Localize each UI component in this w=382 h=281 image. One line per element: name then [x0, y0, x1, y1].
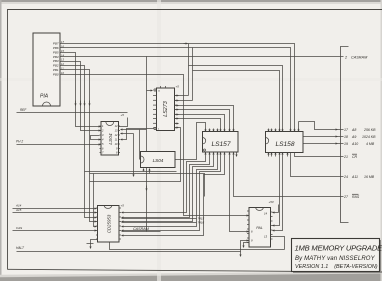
- pin arrow LS157 top: [224, 129, 226, 132]
- svg-text:CR: CR: [352, 155, 358, 159]
- svg-text:LS04: LS04: [108, 133, 114, 145]
- wire LS157 to CD25953: [122, 156, 206, 213]
- wire CD bottom long run: [110, 243, 285, 250]
- wire LS273 to LS157: [179, 115, 225, 132]
- svg-text:21: 21: [343, 155, 348, 159]
- svg-text:1024 KB: 1024 KB: [362, 135, 376, 139]
- wire PB1 to CD25953 pin4: [61, 70, 97, 222]
- pin arrow LS157 bottom: [224, 153, 226, 156]
- svg-text:PB5: PB5: [53, 50, 59, 54]
- pin arrow LS157 bottom: [229, 153, 231, 156]
- wire LS273 q2: [179, 100, 193, 102]
- ground arrow near gate: [133, 134, 135, 177]
- pin arrow LS158 top: [271, 129, 273, 132]
- pin arrow LS158 bottom: [271, 153, 273, 157]
- wire arrow: [89, 101, 91, 106]
- wire LS158 to A10 pin19: [304, 143, 338, 145]
- svg-text:PIA: PIA: [40, 94, 49, 100]
- svg-text:A10: A10: [351, 142, 358, 146]
- wire LS273 gnd circle to LS04 pin11: [121, 129, 154, 140]
- svg-text:CASRAM: CASRAM: [133, 227, 150, 231]
- wire LS158 top loop: [298, 122, 300, 132]
- svg-text:A8: A8: [351, 128, 356, 132]
- ground arrow PAL: [244, 243, 250, 248]
- wire LS158 to A8 pin17: [299, 122, 338, 130]
- pin arrow LS157 bottom: [217, 153, 219, 156]
- wire PB5 to LS04 pin1: [61, 53, 101, 127]
- svg-text:CAS: CAS: [16, 226, 22, 230]
- wire PB0 to PAL: [61, 75, 249, 216]
- pin arrow LS158 top: [294, 129, 296, 132]
- svg-text:16 MB: 16 MB: [364, 175, 375, 179]
- svg-text:13: 13: [264, 235, 268, 239]
- wire LS158 to PAL: [273, 157, 280, 226]
- wire HALT to PAL pin9: [17, 241, 249, 252]
- wire PAL +5V riser: [278, 205, 280, 213]
- ground arrow HALT: [240, 252, 242, 257]
- CD25953 chip: [96, 204, 124, 243]
- pin arrow LS158 bottom: [275, 153, 277, 157]
- wire 7416: [122, 222, 197, 224]
- wire A15: [13, 212, 97, 214]
- pin arrow LS273 out: [175, 123, 179, 125]
- pin arrow LS157 top: [220, 129, 222, 132]
- pin arrow LS157 bottom: [213, 153, 215, 156]
- svg-text:PB2: PB2: [53, 64, 59, 68]
- wire LS157 to CD25953: [122, 156, 225, 236]
- svg-text:PAL: PAL: [256, 226, 263, 230]
- pin arrow LS157 bottom: [220, 153, 222, 156]
- wire CASRAM to connector pin 2: [147, 56, 338, 58]
- svg-text:By MATHY van NISSELROY: By MATHY van NISSELROY: [295, 256, 376, 262]
- wire LS273 q8 bottom run: [90, 128, 181, 182]
- pin arrow LS158 top: [282, 129, 284, 132]
- svg-text:LS158: LS158: [275, 141, 294, 148]
- svg-text:A9: A9: [351, 135, 356, 139]
- wire LS157 to CD25953: [122, 156, 214, 222]
- wire CAS: [13, 230, 97, 232]
- wire to LS158: [189, 66, 283, 132]
- svg-text:PB7: PB7: [53, 42, 59, 46]
- LS157 chip: [203, 129, 239, 157]
- wire LS158 to PAL: [273, 157, 283, 231]
- edge connector: [338, 47, 349, 223]
- wire LS273 to LS157: [179, 106, 234, 132]
- wire PB2 to CD25953 pin3: [61, 66, 97, 218]
- wire PB6 to LS158: [61, 48, 291, 132]
- pin arrow LS158 bottom: [282, 153, 284, 157]
- svg-text:RAS: RAS: [352, 195, 360, 199]
- wire gate pin up arrow: [143, 169, 145, 172]
- svg-text:CASRAM: CASRAM: [351, 55, 368, 59]
- svg-text:A11: A11: [351, 175, 358, 179]
- pin arrow LS157 top: [205, 129, 207, 132]
- svg-text:LS273: LS273: [163, 101, 169, 117]
- svg-text:+5: +5: [121, 204, 125, 208]
- wire LS157 to CD25953: [122, 156, 218, 227]
- svg-text:A15: A15: [15, 208, 22, 212]
- svg-text:PB1: PB1: [53, 68, 59, 72]
- svg-text:4 MB: 4 MB: [366, 142, 375, 146]
- wire LS273 to LS157: [179, 119, 221, 132]
- wire PB6 junction drop to q2: [192, 48, 194, 101]
- svg-text:LS157: LS157: [211, 141, 230, 148]
- title block: [292, 239, 382, 274]
- svg-text:PB6: PB6: [53, 46, 59, 50]
- svg-text:REF: REF: [20, 108, 27, 112]
- pin arrow LS158 top: [298, 129, 300, 132]
- svg-text:19: 19: [344, 142, 348, 146]
- svg-text:+5: +5: [176, 85, 180, 89]
- wire PB7 junction drop to q1: [188, 44, 190, 96]
- wire 7415: [122, 218, 197, 220]
- pin arrow LS158 bottom: [287, 153, 289, 157]
- pin arrow LS157 top: [217, 129, 219, 132]
- pin arrow LS273 out: [175, 95, 179, 97]
- wire PAL pin14 arrow: [273, 212, 279, 214]
- wire PH2 to LS04 pin5: [17, 144, 101, 146]
- wire LS157 to RAS pin27: [234, 156, 338, 197]
- svg-text:PB0: PB0: [53, 72, 59, 76]
- svg-text:18: 18: [344, 135, 348, 139]
- wire arrow PB7: [184, 43, 188, 45]
- pin arrow LS157 top: [209, 129, 211, 132]
- wire clock to LS273: [147, 90, 153, 92]
- svg-text:24: 24: [343, 175, 348, 179]
- PIA chip: [33, 33, 64, 106]
- ground arrow LS157: [236, 153, 238, 157]
- pin arrow LS157 bottom: [209, 153, 211, 156]
- wire LS158 to A11 pin24: [291, 153, 338, 177]
- svg-text:VERSION 1.1 (BETA-VERSION): VERSION 1.1 (BETA-VERSION): [295, 264, 378, 270]
- pin arrow LS158 top: [290, 129, 292, 132]
- wire LS04 +5 corner: [119, 118, 128, 127]
- wire gate out to LS157: [176, 123, 206, 160]
- wire LS158 to CR pin21: [295, 153, 338, 157]
- wire LS273 to LS157: [179, 110, 230, 132]
- svg-text:14: 14: [264, 212, 268, 216]
- pin arrow LS273 out: [175, 114, 179, 116]
- pin arrow LS273 out: [175, 100, 179, 102]
- wire arrow on CASRAM vertical: [146, 186, 148, 191]
- svg-text:A14: A14: [15, 204, 22, 208]
- wire clock to LS04 pin13: [121, 129, 147, 131]
- svg-text:+5: +5: [121, 113, 125, 117]
- wire A14: [13, 208, 97, 210]
- svg-text:PB3: PB3: [53, 59, 59, 63]
- PAL chip: [247, 208, 273, 248]
- pin arrow LS157 top: [213, 129, 215, 132]
- wire LS157 to PAL pin6: [230, 156, 249, 232]
- svg-text:PB4: PB4: [53, 55, 59, 59]
- wire gate input drop: [139, 130, 141, 160]
- wire to LS04 pin12: [121, 133, 134, 135]
- pin arrow LS157 bottom: [233, 153, 235, 156]
- wire arrow: [75, 101, 77, 106]
- wire LS273 q1: [179, 95, 189, 97]
- svg-text:256 KB: 256 KB: [363, 128, 376, 132]
- LS04 gate: [141, 152, 176, 168]
- wire arrow: [80, 101, 82, 106]
- LS04 IC: [100, 113, 125, 155]
- wire PB7 to LS158: [61, 44, 295, 132]
- pin arrow LS158 bottom: [268, 153, 270, 157]
- pin arrow LS158 top: [279, 129, 281, 132]
- svg-text:HALT: HALT: [16, 246, 25, 250]
- LS158 chip: [266, 129, 304, 157]
- svg-text:PH 2: PH 2: [16, 139, 23, 143]
- pin arrow LS273 out: [175, 105, 179, 107]
- wire arrow: [84, 101, 86, 106]
- LS273 chip: [153, 85, 179, 131]
- wire LS157 to CD25953: [122, 156, 210, 218]
- wire PB3 to LS04 pin2: [61, 62, 101, 131]
- pin arrow LS157 top: [233, 129, 235, 132]
- ground arrow CD25953: [91, 240, 98, 249]
- wire gate pin up arrow: [149, 169, 151, 174]
- wire LS158 to A9 pin18: [304, 136, 338, 138]
- wire bus line gate pin1: [85, 171, 177, 173]
- wire PB4 CASRAM vertical: [61, 57, 147, 232]
- wire to LS158: [193, 71, 280, 132]
- wire CASRAM: [122, 231, 161, 233]
- wire LS157 to CD25953: [122, 156, 221, 231]
- svg-text:1MB MEMORY UPGRADE: 1MB MEMORY UPGRADE: [295, 244, 382, 253]
- pin arrow LS158 bottom: [279, 153, 281, 157]
- wire LS04 pin3 to pin4 loop: [91, 136, 101, 140]
- pin arrow LS157 bottom: [205, 153, 207, 156]
- pin arrow LS157 top: [229, 129, 231, 132]
- pin arrow LS158 top: [268, 129, 270, 132]
- pin arrow LS273 out: [175, 118, 179, 120]
- pin arrow LS273 out: [175, 109, 179, 111]
- wire PAL pin13 loop: [271, 237, 285, 250]
- pin arrow LS158 top: [275, 129, 277, 132]
- wire gate pin2 bus down: [90, 174, 205, 197]
- wire bus tap to CD25953 pin5: [94, 174, 97, 227]
- pin arrow LS273 out: [175, 127, 179, 129]
- wire REF: [17, 112, 128, 114]
- svg-text:7416: 7416: [198, 220, 205, 224]
- svg-text:CD25953: CD25953: [107, 214, 112, 233]
- svg-text:LS04: LS04: [153, 158, 164, 163]
